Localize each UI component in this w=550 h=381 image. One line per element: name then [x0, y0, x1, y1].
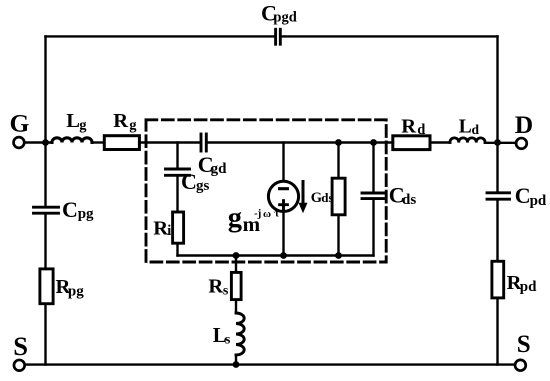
- capacitor Cpg: [34, 207, 59, 213]
- wire Rs to Ls: [235, 301, 237, 314]
- svg-text:C: C: [181, 169, 197, 194]
- wire Ld to D: [485, 142, 516, 144]
- svg-text:G: G: [10, 109, 30, 138]
- capacitor Cpd: [487, 193, 510, 199]
- resistor Rs: [231, 272, 241, 299]
- resistor Rpg: [40, 269, 53, 304]
- wire Rd to Ld: [432, 141, 451, 143]
- resistor Rd: [393, 136, 430, 150]
- node at Gds bottom: [335, 252, 342, 259]
- svg-text:S: S: [13, 331, 28, 361]
- wire internal bottom: [178, 254, 374, 256]
- dashed intrinsic box: [146, 120, 386, 262]
- wire bottom rail: [25, 363, 515, 365]
- inductor Ld: [450, 138, 485, 143]
- svg-text:pg: pg: [68, 283, 84, 299]
- wire Cpd to Rpd: [496, 200, 498, 260]
- svg-text:R: R: [153, 217, 168, 239]
- wire Cds branch bottom: [372, 200, 374, 256]
- wire left column top (G node up to top rail): [44, 36, 46, 142]
- wire Cgd to Rd: [208, 141, 393, 143]
- svg-text:D: D: [515, 110, 533, 139]
- svg-text:L: L: [459, 117, 472, 138]
- svg-text:C: C: [62, 197, 78, 222]
- wire right column node to Cpd: [496, 143, 498, 192]
- svg-text:ds: ds: [402, 192, 416, 208]
- node at source bottom: [280, 252, 287, 259]
- wire current source bottom: [282, 212, 284, 256]
- resistor Rpd: [492, 261, 504, 298]
- svg-text:ω: ω: [263, 208, 271, 220]
- svg-text:G: G: [311, 190, 322, 206]
- wire Lg to Rg: [92, 141, 104, 143]
- wire right column top (D node to top rail): [496, 36, 498, 142]
- svg-text:i: i: [167, 223, 171, 239]
- capacitor Cpgd: [276, 29, 281, 44]
- node at Cds top: [370, 139, 377, 146]
- node at Gds top: [335, 139, 342, 146]
- svg-text:pg: pg: [78, 206, 94, 222]
- arrowhead of current arrow: [299, 203, 308, 213]
- inductor Ls: [236, 313, 244, 355]
- wire left column between node and Cpg: [44, 143, 46, 206]
- node at Ls bottom: [233, 361, 240, 368]
- terminal G: [14, 137, 25, 148]
- minus sign inside source: [280, 187, 288, 190]
- svg-text:pgd: pgd: [273, 9, 296, 25]
- svg-text:R: R: [401, 116, 416, 138]
- node at D branch: [494, 139, 501, 146]
- wire current source top: [282, 143, 284, 182]
- wire Cds branch top: [372, 143, 374, 192]
- svg-text:S: S: [517, 331, 531, 358]
- svg-text:g: g: [129, 118, 137, 134]
- wire Cgs to Ri: [176, 177, 178, 213]
- wire Cpg to Rpg: [44, 214, 46, 269]
- svg-text:τ: τ: [274, 208, 279, 220]
- svg-text:s: s: [225, 333, 231, 348]
- svg-text:C: C: [515, 183, 531, 208]
- plus sign inside source: [280, 201, 288, 209]
- wire top rail right of Cpgd: [283, 35, 498, 37]
- wire Rg to Cgd: [140, 141, 200, 143]
- svg-text:-j: -j: [254, 208, 261, 220]
- current source gm circle: [268, 181, 298, 211]
- capacitor Cgs: [166, 169, 190, 175]
- terminal S right: [515, 360, 526, 371]
- wire Ls to bottom rail: [235, 355, 237, 365]
- resistor Ri: [173, 212, 184, 243]
- wire Gds branch bottom: [337, 216, 339, 255]
- current direction arrow: [302, 182, 305, 205]
- wire Cgs branch from main wire: [176, 143, 178, 168]
- capacitor Cds: [362, 193, 385, 199]
- svg-text:gd: gd: [211, 161, 228, 177]
- wire Rs branch top: [235, 256, 237, 272]
- wire G to Lg: [24, 141, 52, 143]
- wire Rpd to bottom rail: [496, 299, 498, 364]
- node at Rs top: [233, 252, 240, 259]
- wire top rail left of Cpgd: [46, 35, 274, 37]
- svg-text:d: d: [417, 122, 425, 138]
- resistor Rg: [104, 136, 139, 150]
- terminal S left: [14, 360, 25, 371]
- node at G branch: [42, 139, 49, 146]
- wire Rpg to bottom rail: [44, 304, 46, 365]
- svg-text:pd: pd: [530, 193, 547, 209]
- wire Ri to internal bottom wire: [176, 243, 178, 255]
- svg-text:g: g: [228, 202, 242, 233]
- svg-text:d: d: [472, 122, 480, 137]
- svg-text:g: g: [79, 118, 87, 134]
- svg-text:R: R: [208, 276, 223, 298]
- wire Gds branch top: [337, 143, 339, 177]
- svg-text:gs: gs: [196, 178, 210, 194]
- svg-text:s: s: [223, 284, 229, 299]
- svg-text:L: L: [66, 110, 80, 132]
- svg-text:R: R: [113, 110, 128, 132]
- terminal D: [516, 138, 527, 149]
- capacitor Cgd: [201, 134, 206, 151]
- inductor Lg: [52, 138, 92, 143]
- resistor Gds: [332, 178, 345, 215]
- svg-text:pd: pd: [520, 279, 537, 295]
- svg-text:ds: ds: [321, 190, 333, 205]
